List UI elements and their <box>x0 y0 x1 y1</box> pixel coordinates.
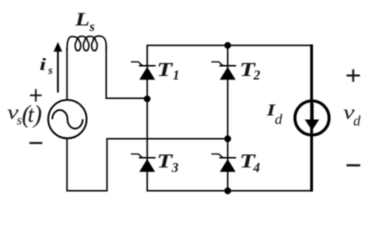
svg-text:2: 2 <box>253 68 261 83</box>
svg-text:): ) <box>32 102 42 129</box>
svg-text:i: i <box>40 56 47 74</box>
svg-text:s: s <box>47 65 53 77</box>
svg-text:d: d <box>353 113 361 129</box>
svg-text:d: d <box>275 112 283 128</box>
svg-text:L: L <box>74 9 90 30</box>
svg-text:1: 1 <box>173 68 180 83</box>
svg-text:s: s <box>89 19 95 34</box>
svg-text:4: 4 <box>252 160 260 175</box>
svg-text:T: T <box>157 59 174 81</box>
svg-text:3: 3 <box>171 160 179 175</box>
